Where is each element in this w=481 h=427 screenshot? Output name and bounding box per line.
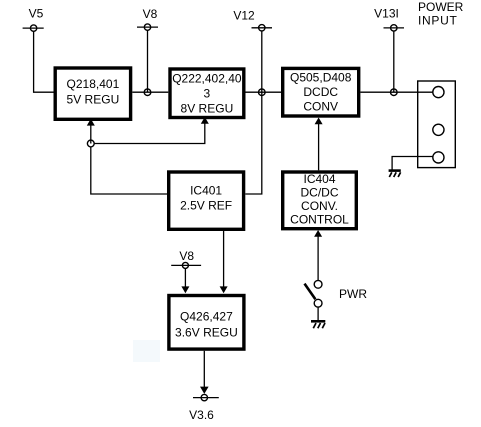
svg-text:Q222,402,40: Q222,402,40 bbox=[172, 72, 242, 86]
wire V8 drop to bus bbox=[147, 30, 149, 92]
junction control net bbox=[87, 140, 94, 147]
wire control net junction down to 2.5V REF left side bbox=[91, 147, 167, 194]
svg-text:DCDC: DCDC bbox=[303, 85, 338, 99]
switch PWR contact bottom bbox=[314, 299, 322, 307]
terminal V3.6 bbox=[189, 394, 219, 421]
arrow into 3.6V REGU top from V8 bbox=[181, 286, 189, 293]
svg-text:CONTROL: CONTROL bbox=[290, 213, 349, 227]
svg-text:V8: V8 bbox=[143, 7, 158, 21]
wire PWR switch up to IC404 control input bbox=[317, 237, 319, 281]
terminal V13I bbox=[374, 7, 404, 32]
terminal V5 bbox=[23, 7, 44, 32]
junction V12 bus bbox=[259, 89, 266, 96]
wire 8V REGU output to DCDC CONV input bbox=[246, 91, 282, 93]
svg-text:V8: V8 bbox=[179, 249, 194, 263]
faint scan artifact patch bbox=[133, 340, 160, 362]
block Q222,402,403 8V REGU bbox=[170, 69, 244, 118]
svg-text:Q218,401: Q218,401 bbox=[67, 77, 120, 91]
power connector POWER INPUT bbox=[418, 81, 456, 168]
terminal V12 bbox=[233, 9, 272, 31]
ground at power connector bbox=[389, 171, 401, 177]
svg-text:IC401: IC401 bbox=[190, 183, 222, 197]
wire V5 to 5V REGU input bbox=[34, 31, 54, 92]
wire switch to ground bbox=[317, 307, 319, 321]
wire 2.5V REF output up to 5V REGU control bbox=[90, 125, 92, 144]
wire V8 mid down to 3.6V REGU bbox=[184, 268, 186, 287]
svg-text:3: 3 bbox=[204, 87, 211, 101]
svg-text:V13I: V13I bbox=[374, 7, 399, 21]
block IC401 2.5V REF bbox=[169, 172, 244, 229]
wire DCDC CONV output to power connector pin 1 bbox=[360, 91, 433, 93]
arrow into 8V REGU bottom bbox=[201, 117, 209, 124]
svg-text:CONV: CONV bbox=[303, 100, 338, 114]
wire 3.6V REGU output down to V3.6 terminal bbox=[203, 351, 205, 387]
wire IC404 up to DCDC CONV control bbox=[318, 124, 320, 170]
arrow into DCDC CONV bottom bbox=[315, 118, 323, 125]
terminal V8 bbox=[137, 7, 158, 30]
svg-text:Q426,427: Q426,427 bbox=[180, 310, 233, 324]
svg-text:3.6V REGU: 3.6V REGU bbox=[175, 326, 238, 340]
terminal V8 (mid) bbox=[171, 249, 201, 268]
wire 2.5V REF output down to 3.6V REGU bbox=[223, 231, 225, 287]
svg-text:2.5V REF: 2.5V REF bbox=[180, 198, 232, 212]
svg-text:POWER: POWER bbox=[418, 0, 464, 14]
svg-text:DC/DC: DC/DC bbox=[301, 186, 339, 200]
arrow into IC404 bottom bbox=[314, 230, 322, 237]
junction V13I bus bbox=[391, 89, 398, 96]
wire V13I drop to bus bbox=[393, 31, 395, 92]
block IC404 DC/DC CONV. CONTROL bbox=[283, 172, 357, 229]
svg-text:V12: V12 bbox=[233, 9, 255, 23]
svg-text:Q505,D408: Q505,D408 bbox=[290, 71, 352, 85]
svg-text:IC404: IC404 bbox=[303, 172, 335, 186]
svg-text:5V REGU: 5V REGU bbox=[67, 93, 120, 107]
block Q426,427 3.6V REGU bbox=[169, 296, 244, 350]
arrow into V3.6 terminal bbox=[200, 387, 209, 394]
wire V12 drop through bus to 2.5V REF right side bbox=[245, 31, 261, 194]
wire control net junction right to 8V REGU control bbox=[94, 124, 205, 144]
svg-text:V3.6: V3.6 bbox=[189, 408, 214, 422]
junction V8 bus bbox=[144, 89, 151, 96]
arrow into 3.6V REGU top bbox=[220, 286, 228, 293]
svg-text:INPUT: INPUT bbox=[418, 14, 458, 28]
svg-text:V5: V5 bbox=[29, 7, 44, 21]
wire 5V REGU output to 8V REGU input bbox=[132, 91, 168, 93]
label POWER INPUT bbox=[418, 0, 464, 28]
switch PWR contact top bbox=[314, 280, 322, 288]
svg-text:CONV.: CONV. bbox=[301, 199, 338, 213]
block Q505,D408 DCDC CONV bbox=[283, 68, 359, 116]
wire connector pin 3 to ground bbox=[392, 157, 433, 170]
ground below PWR switch bbox=[311, 321, 325, 328]
svg-text:8V REGU: 8V REGU bbox=[181, 102, 234, 116]
switch PWR lever bbox=[305, 284, 316, 300]
block Q218,401 5V REGU bbox=[55, 68, 130, 119]
arrow into 5V REGU bottom bbox=[87, 119, 95, 126]
svg-text:PWR: PWR bbox=[339, 287, 367, 301]
